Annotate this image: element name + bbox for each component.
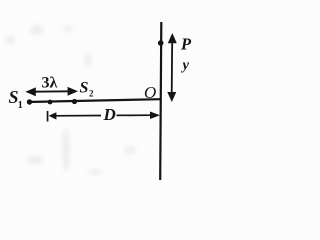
svg-text:P: P <box>180 35 192 54</box>
svg-text:D: D <box>103 105 116 124</box>
svg-text:S: S <box>80 80 89 97</box>
svg-text:O: O <box>144 83 156 102</box>
svg-text:2: 2 <box>89 89 94 99</box>
svg-text:y: y <box>181 58 190 74</box>
svg-text:1: 1 <box>18 100 23 111</box>
svg-text:3λ: 3λ <box>42 75 58 92</box>
